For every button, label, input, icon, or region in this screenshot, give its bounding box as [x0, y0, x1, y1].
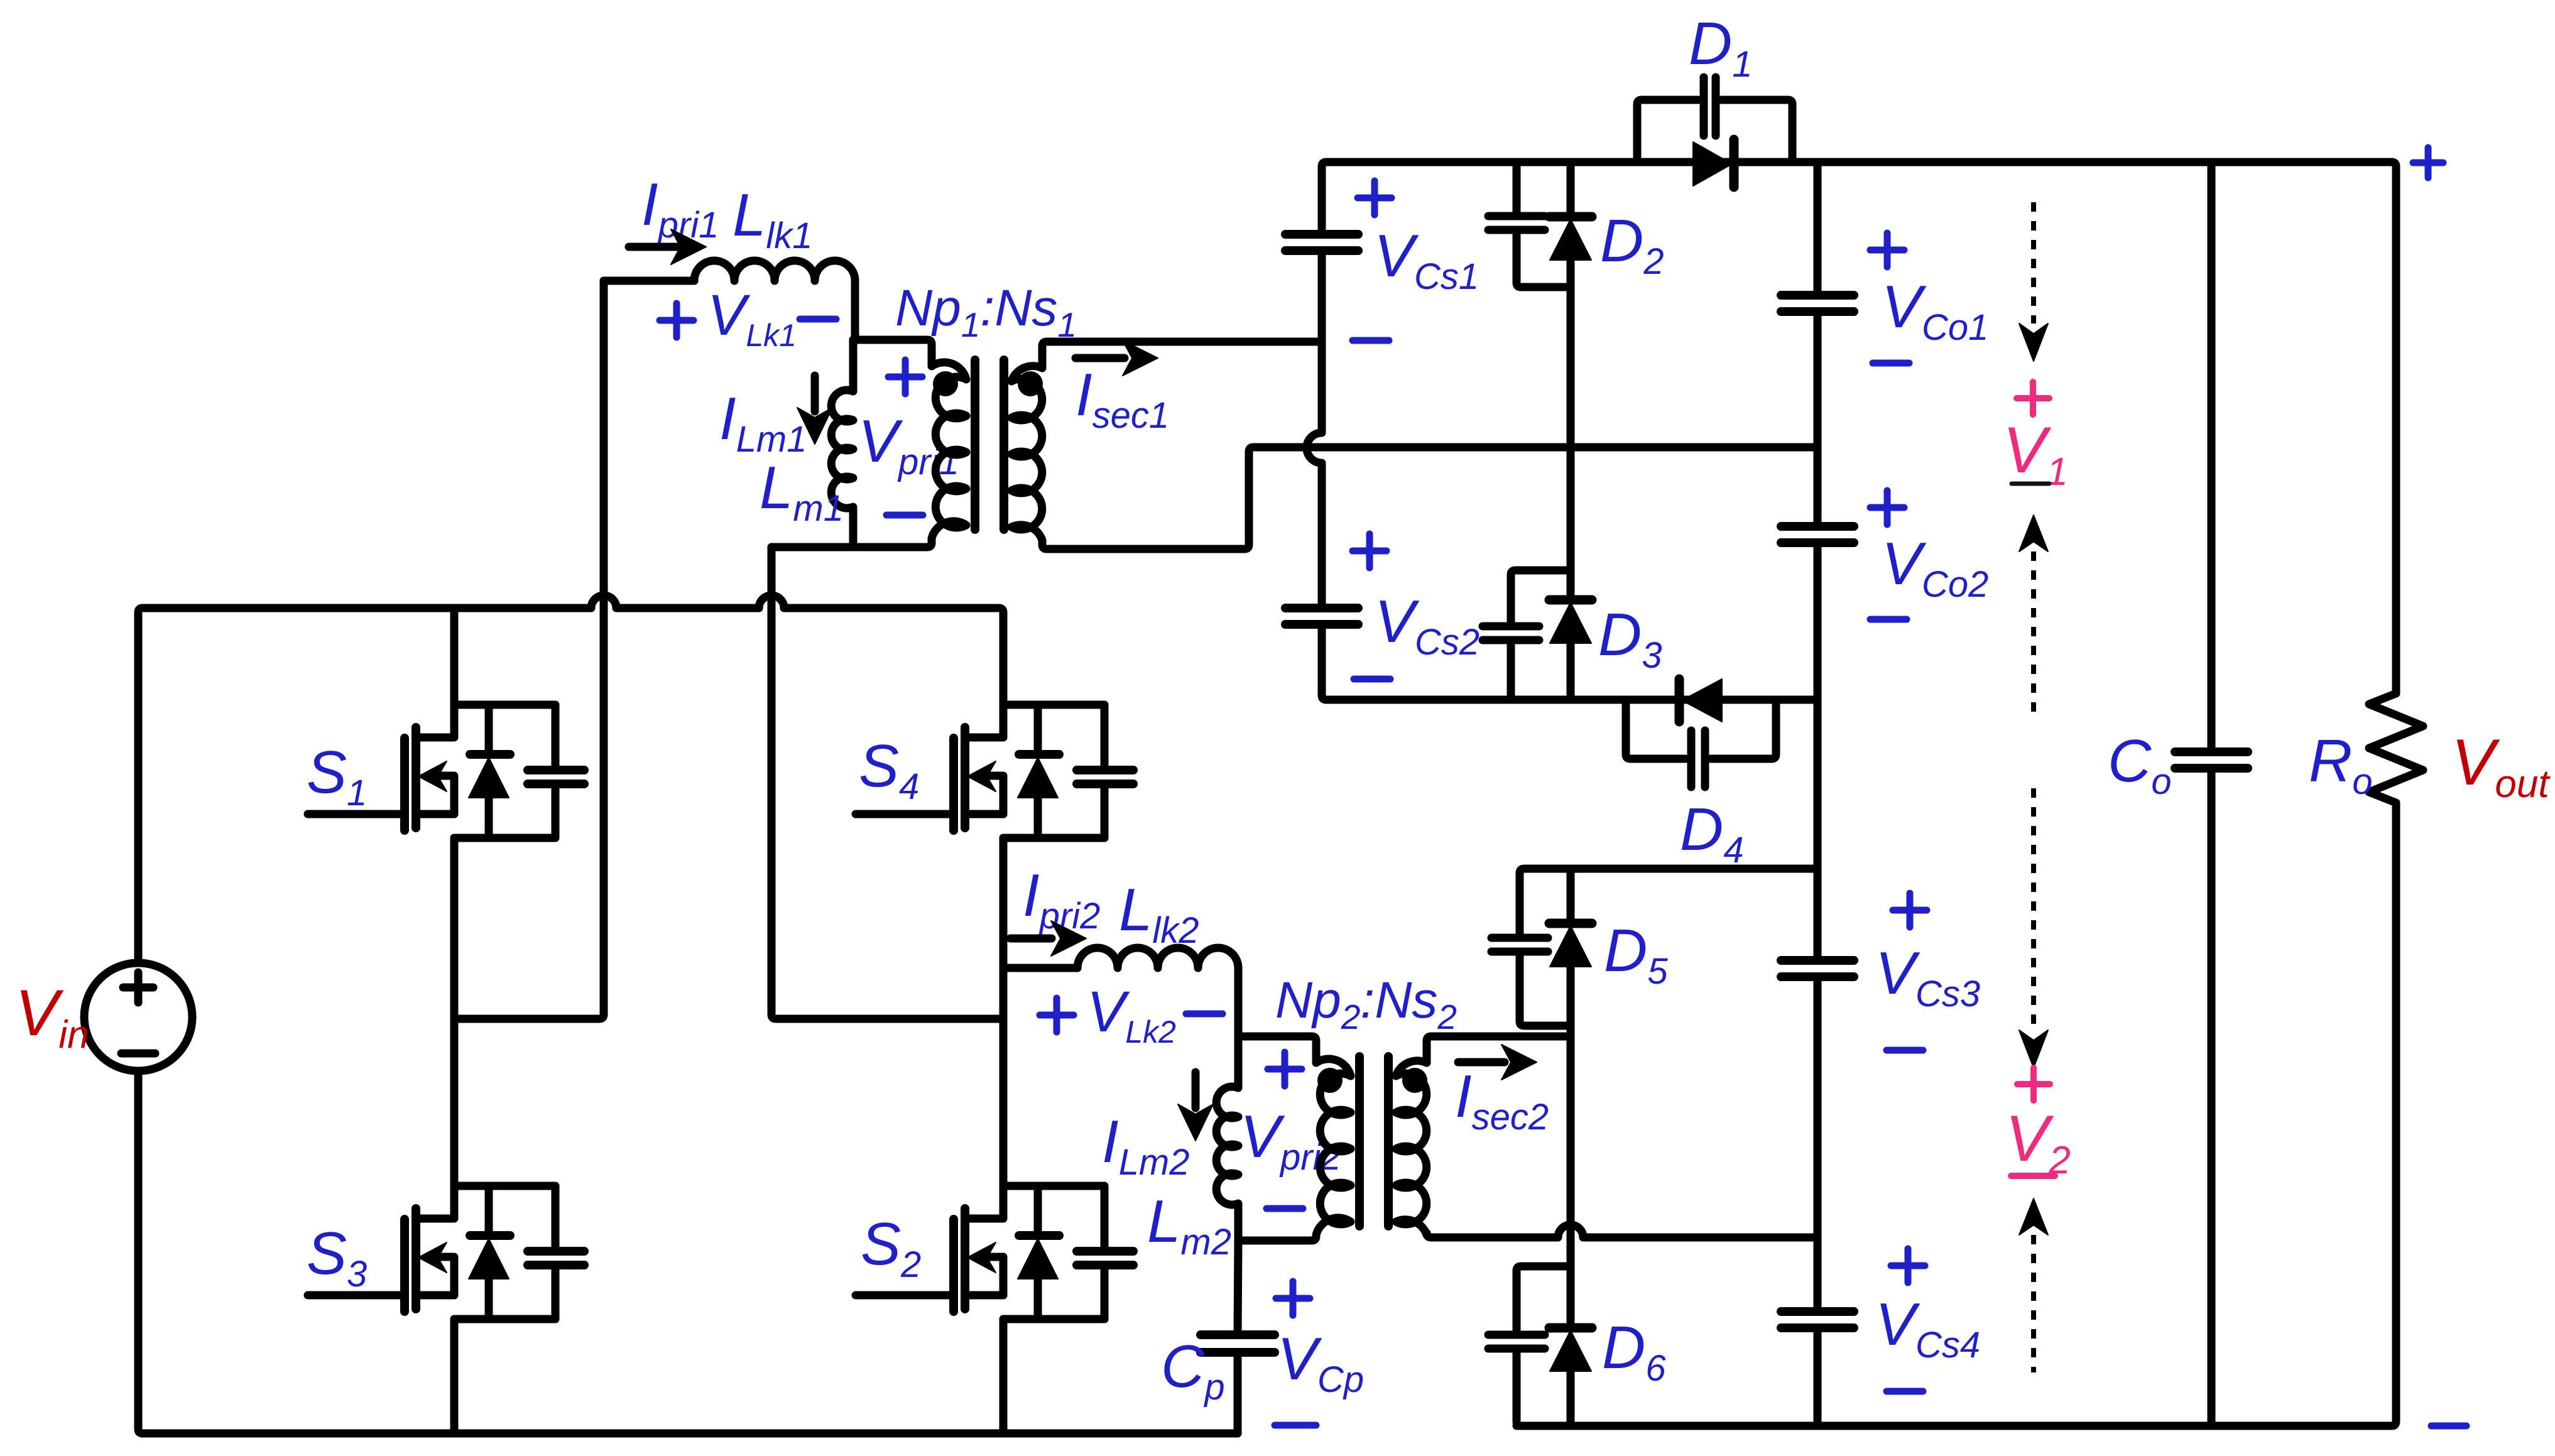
capacitor Cs4 — [1781, 1312, 1854, 1328]
label V2 — [2017, 1068, 2050, 1100]
transistor S4 — [856, 705, 1133, 838]
inductor Lm2 (magnetizing) — [1216, 1036, 1238, 1241]
wire: Lk2 to transformer-2 primary top riser — [1234, 968, 1243, 1036]
dashed arrow: V1 span upper — [2031, 202, 2036, 323]
arrow: Ipri2 current direction — [1010, 935, 1052, 943]
capacitor Co2 with leads — [1781, 526, 1854, 543]
label - of VCs2 — [1354, 676, 1390, 683]
label - of VCo2 — [1870, 616, 1907, 623]
wire: Cp top lead — [1238, 1241, 1238, 1335]
dashed arrow: V1 span lower — [2019, 515, 2048, 551]
wire: primary-1 return riser (jumps top rail) to half-bridge-2 midpoint — [771, 547, 1003, 1019]
wire: half-bridge-1 midpoint riser (jumps top rail) to Lk1 — [459, 281, 604, 1019]
label - of VCp — [1275, 1422, 1316, 1429]
wire: D5 anode down (under sec2 bottom pin jump) to D6 — [1567, 1036, 1575, 1328]
label +VLk1- — [660, 303, 694, 337]
inductor Lk1 — [694, 261, 855, 281]
dashed arrow: V2 span upper — [2031, 788, 2036, 1027]
capacitor Cs3 — [1781, 960, 1854, 977]
wire: Lk1 to transformer-1 primary top riser — [851, 281, 859, 340]
capacitor Cs1 — [1285, 234, 1358, 251]
wire: Vin- down, primary bottom rail to Cp — [138, 1071, 1238, 1433]
label - of VCo1 — [1873, 360, 1909, 367]
capacitor Co with leads — [2208, 162, 2216, 752]
label + of Vpri2 — [1268, 1052, 1302, 1086]
diode D5 with leads — [1567, 869, 1575, 923]
capacitor Cs2 — [1285, 608, 1358, 624]
wire: S3 source to bottom rail — [450, 1319, 459, 1433]
label + of VCs3 — [1893, 893, 1927, 927]
wire: S1 source to S3 drain (half-bridge 1 midpoint) — [450, 838, 459, 1186]
capacitor Cp — [1201, 1335, 1275, 1352]
wire: V2 cell top line from D5 snubber to Cs3 column — [1520, 869, 1817, 938]
wire: Cs3 column from V1/V2 node — [1814, 700, 1822, 960]
arrow: Isec1 current direction — [1076, 354, 1125, 362]
label + of VCo1 — [1870, 233, 1904, 267]
arrow: ILm1 current direction — [811, 376, 819, 411]
svg-text:Np2:Ns2: Np2:Ns2 — [1275, 972, 1457, 1036]
inductor Lm1 (magnetizing) — [831, 340, 853, 547]
label + of VCs2 — [1353, 534, 1386, 568]
wire: S4 source to S2 drain (half-bridge 2 midpoint) — [1000, 838, 1008, 1186]
dashed arrow: V2 span lower — [2019, 1198, 2048, 1235]
diode D2 with leads — [1567, 162, 1575, 217]
label + of VCs4 — [1891, 1249, 1925, 1283]
wire: midpoint riser to Lk1 — [604, 277, 694, 285]
label + of Vout — [2413, 148, 2443, 178]
transformer T2 secondary winding and link to Cs3/Cs4 midpoint (jumps diode column) — [1396, 1036, 1817, 1237]
capacitor Co1 with leads — [1814, 162, 1822, 295]
transistor S3 — [308, 1186, 584, 1319]
wire: half-bridge-2 midpoint to Lk2 — [1003, 964, 1077, 972]
transformer T2 core — [1355, 1057, 1364, 1226]
transformer T1 primary winding — [771, 340, 966, 547]
inductor Lk2 — [1077, 948, 1238, 968]
snubber capacitor of D4 — [1626, 700, 1686, 759]
transformer T1 secondary winding and link to Co1/Co2 midpoint (jumps Cs column) — [1011, 342, 1817, 549]
diode D3 with leads — [1549, 600, 1592, 643]
wire: output top line with Cs1 lead and Ro lead — [1322, 162, 2396, 693]
diode D4 (on V1/V2 mid line) — [1675, 679, 1684, 722]
wire: S1 drain tap — [450, 608, 459, 705]
wire: Cs1 bottom / sec1-top node down (jumps link wire) to Cs2 — [1307, 251, 1322, 608]
wire: Cs2 bottom corner and V1/V2 mid line to Co2 bottom — [1322, 624, 1817, 700]
transformer T2 primary winding — [1238, 1036, 1351, 1241]
label - of Vpri1 — [886, 512, 923, 519]
transistor S2 — [856, 1186, 1133, 1319]
label +VLk2- — [1040, 998, 1074, 1032]
snubber capacitor of D2 — [1513, 162, 1521, 216]
transformer T2 dots — [1317, 1068, 1343, 1093]
transformer T1 core — [971, 360, 979, 530]
arrow: ILm2 current direction — [1192, 1072, 1200, 1108]
transistor S1 — [308, 705, 584, 838]
wire: Cp bottom lead — [1234, 1352, 1242, 1433]
wire: S2 source to bottom rail — [1000, 1319, 1008, 1433]
label + of VCo2 — [1870, 491, 1904, 524]
voltage source Vin — [84, 963, 192, 1071]
label - of VCs4 — [1887, 1388, 1923, 1395]
snubber capacitor of D1 — [1637, 100, 1698, 162]
label + of VCp — [1276, 1281, 1310, 1315]
label + of VCs1 — [1358, 181, 1392, 215]
snubber capacitor of D5 — [1491, 938, 1548, 952]
wire: Cs4 bottom to secondary bottom rail — [1814, 1328, 1822, 1426]
snubber capacitor of D6 — [1517, 1266, 1571, 1335]
diode D6 with leads — [1549, 1328, 1592, 1371]
svg-text:Np1:Ns1: Np1:Ns1 — [895, 280, 1077, 344]
label - of Vout — [2431, 1423, 2466, 1430]
diode D1 (on top line) — [1693, 142, 1732, 186]
arrow: Ipri1 current direction — [629, 243, 680, 251]
transformer T1 dots — [933, 371, 958, 396]
label - of VCs3 — [1887, 1047, 1923, 1054]
wire: Cs3 bottom to Cs4 top — [1814, 977, 1822, 1312]
arrow: Isec2 current direction — [1458, 1058, 1505, 1067]
snubber capacitor of D3 — [1511, 570, 1571, 626]
resistor Ro — [2369, 693, 2423, 808]
label + of Vpri1 — [888, 360, 922, 394]
label - of Vpri2 — [1267, 1205, 1303, 1212]
label V1 — [2017, 382, 2049, 415]
label - of VCs1 — [1353, 337, 1389, 344]
wire: Vin+ up, primary top rail with two wire jumps, into S4 drain — [138, 595, 1003, 963]
wire: secondary bottom rail to Ro — [1517, 808, 2396, 1426]
